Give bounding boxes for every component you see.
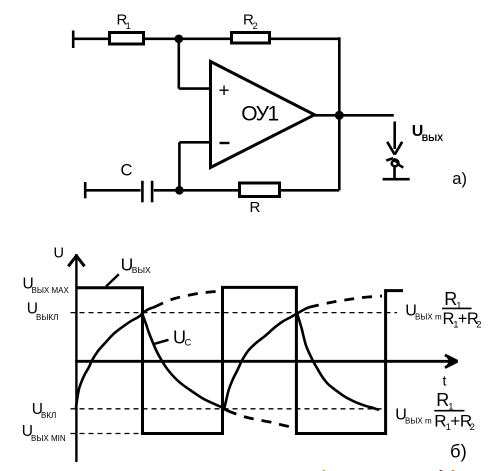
- svg-text:ВКЛ: ВКЛ: [41, 411, 56, 420]
- svg-text:б): б): [450, 440, 467, 461]
- svg-text:+R: +R: [450, 411, 472, 430]
- svg-text:ВЫХ m: ВЫХ m: [415, 313, 442, 322]
- svg-text:ОУ1: ОУ1: [241, 103, 278, 126]
- svg-text:ВЫХ m: ВЫХ m: [405, 417, 432, 426]
- svg-text:2: 2: [476, 319, 481, 330]
- svg-text:а): а): [452, 170, 467, 188]
- svg-text:C: C: [121, 162, 133, 180]
- svg-text:ВЫКЛ: ВЫКЛ: [36, 313, 58, 322]
- svg-text:1: 1: [126, 21, 131, 32]
- svg-text:R: R: [434, 411, 446, 430]
- svg-text:ВЫХ МАХ: ВЫХ МАХ: [32, 286, 70, 295]
- svg-text:ВЫХ: ВЫХ: [132, 265, 151, 275]
- svg-text:R: R: [250, 199, 261, 216]
- svg-text:2: 2: [253, 21, 258, 32]
- svg-text:+: +: [219, 81, 230, 102]
- svg-text:t: t: [443, 373, 447, 389]
- svg-text:ВЫХ: ВЫХ: [422, 133, 443, 143]
- svg-text:2: 2: [470, 422, 475, 433]
- svg-text:C: C: [185, 338, 192, 349]
- svg-text:ВЫХ MIN: ВЫХ MIN: [31, 434, 66, 443]
- svg-text:U: U: [54, 246, 64, 262]
